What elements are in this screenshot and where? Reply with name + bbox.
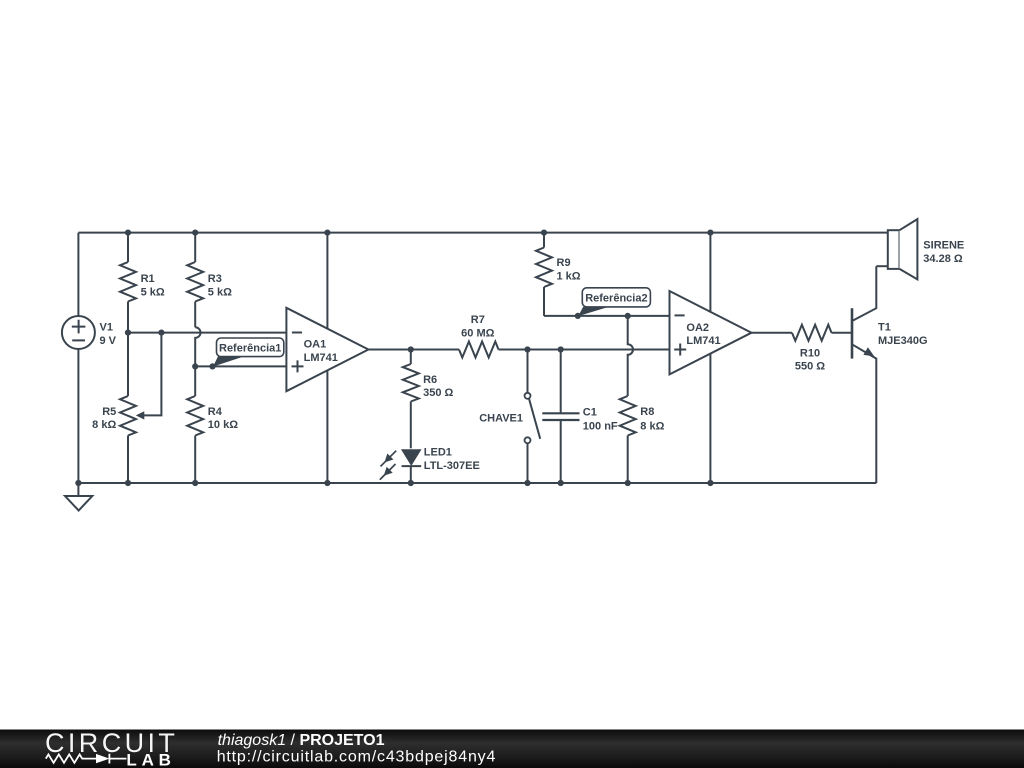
potentiometer R5 — [92, 333, 144, 483]
svg-text:R8: R8 — [640, 406, 654, 418]
junction dot Referencia2 attach — [575, 313, 581, 319]
op-amp OA1 power wires — [326, 233, 328, 329]
junction dot wiper branch — [158, 330, 164, 336]
svg-text:LM741: LM741 — [304, 352, 338, 364]
wire OA2 output to R10 — [752, 332, 793, 334]
junction dot R4 bottom rail — [192, 480, 198, 486]
op-amp OA2 — [670, 291, 752, 374]
svg-text:LM741: LM741 — [686, 335, 720, 347]
junction dot Referencia1 attach — [209, 363, 215, 369]
svg-text:550 Ω: 550 Ω — [795, 361, 825, 373]
svg-text:R4: R4 — [208, 406, 223, 418]
svg-text:LTL-307EE: LTL-307EE — [424, 460, 480, 472]
junction dot switch bottom — [524, 480, 530, 486]
svg-text:5 kΩ: 5 kΩ — [141, 286, 165, 298]
junction dot R3/R4 node — [192, 363, 198, 369]
svg-text:MJE340G: MJE340G — [878, 335, 928, 347]
svg-text:9 V: 9 V — [100, 335, 117, 347]
LED LED1 — [380, 446, 480, 483]
junction dot R8 bottom — [625, 480, 631, 486]
junction dot R5 bottom rail — [125, 480, 131, 486]
junction dot V1 bottom rail — [75, 480, 81, 486]
svg-text:OA1: OA1 — [304, 339, 327, 351]
switch CHAVE1 — [479, 350, 540, 484]
wire node to OA1 inverting input — [128, 332, 286, 334]
junction dot R1/R5 node — [125, 330, 131, 336]
svg-text:R3: R3 — [208, 273, 222, 285]
footer bar — [0, 730, 1024, 768]
svg-text:8 kΩ: 8 kΩ — [640, 421, 664, 433]
svg-text:8 kΩ: 8 kΩ — [92, 419, 116, 431]
svg-text:http://circuitlab.com/c43bdpej: http://circuitlab.com/c43bdpej84ny4 — [217, 749, 497, 766]
svg-text:Referência1: Referência1 — [219, 342, 281, 354]
resistor R6 — [403, 350, 454, 449]
resistor R3 — [187, 233, 232, 328]
svg-text:C1: C1 — [583, 407, 597, 419]
resistor R10 — [792, 325, 852, 373]
junction dot R9 top — [541, 230, 547, 236]
svg-text:R5: R5 — [102, 406, 116, 418]
op-amp OA2 power wires — [709, 233, 711, 312]
resistor R7 — [459, 314, 499, 357]
svg-text:thiagosk1 / PROJETO1: thiagosk1 / PROJETO1 — [218, 732, 385, 749]
resistor R4 — [187, 366, 238, 483]
svg-text:R9: R9 — [557, 257, 571, 269]
svg-text:OA2: OA2 — [686, 322, 709, 334]
junction dot R8 branch — [625, 313, 631, 319]
ground — [65, 483, 92, 511]
junction dot C1 bottom — [558, 480, 564, 486]
svg-text:SIRENE: SIRENE — [923, 240, 964, 252]
svg-text:R6: R6 — [423, 374, 437, 386]
svg-text:T1: T1 — [878, 322, 891, 334]
svg-text:LAB: LAB — [126, 750, 175, 768]
wire OA1 output to R7 — [368, 349, 459, 351]
resistor R8 with hop over signal wire — [620, 316, 665, 483]
junction dot C1 top — [558, 346, 564, 352]
junction dots OA2 power rails — [707, 230, 713, 236]
junction dot R1 top rail — [125, 230, 131, 236]
svg-text:60 MΩ: 60 MΩ — [461, 328, 494, 340]
svg-text:CHAVE1: CHAVE1 — [479, 412, 523, 424]
junction dot switch top — [524, 346, 530, 352]
svg-text:34.28 Ω: 34.28 Ω — [923, 253, 963, 265]
junction dots OA1 power rails — [324, 230, 330, 236]
resistor R1 — [120, 233, 165, 333]
svg-text:10 kΩ: 10 kΩ — [208, 419, 238, 431]
flag Referencia1 — [213, 338, 284, 367]
junction dot R6 top — [408, 346, 414, 352]
svg-text:LED1: LED1 — [424, 446, 452, 458]
svg-text:350 Ω: 350 Ω — [423, 387, 453, 399]
wire bottom rail — [78, 482, 876, 484]
wire hop: R3 branch over minus-node wire — [195, 327, 200, 366]
logo resistor-diode glyph — [46, 754, 127, 764]
speaker SIRENE — [876, 219, 964, 279]
resistor R9 — [536, 233, 581, 316]
wire R9 to OA2 inverting input — [544, 315, 670, 317]
svg-text:100 nF: 100 nF — [583, 421, 618, 433]
svg-text:Referência2: Referência2 — [585, 292, 647, 304]
junction dot R3 top rail — [192, 230, 198, 236]
flag Referencia2 — [578, 288, 650, 316]
op-amp OA1 — [286, 308, 368, 391]
svg-text:R10: R10 — [800, 347, 820, 359]
wire node to OA1 non-inverting input — [195, 365, 286, 367]
svg-text:R1: R1 — [141, 273, 155, 285]
svg-text:V1: V1 — [100, 322, 113, 334]
junction dot LED bottom — [408, 480, 414, 486]
wire R5 wiper branch — [144, 333, 161, 416]
voltage source V1 — [62, 233, 117, 483]
transistor T1 — [852, 266, 928, 483]
wire top rail — [78, 232, 887, 234]
capacitor C1 — [542, 350, 618, 484]
svg-text:1 kΩ: 1 kΩ — [557, 271, 581, 283]
svg-text:R7: R7 — [471, 314, 485, 326]
logo CircuitLab wordmark — [45, 728, 178, 768]
wire R7 to OA2 non-inverting input — [499, 349, 670, 351]
svg-text:5 kΩ: 5 kΩ — [208, 286, 232, 298]
